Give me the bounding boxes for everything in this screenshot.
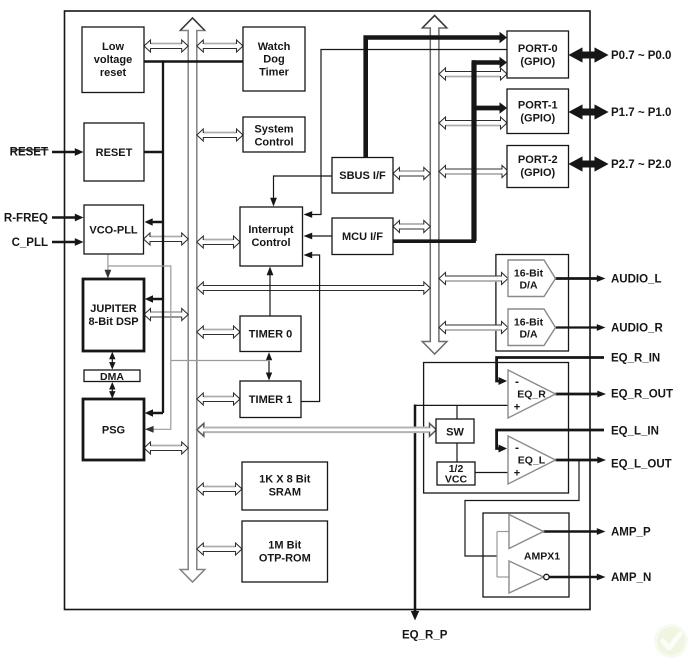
block: Interrupt Control [240, 207, 303, 266]
wire: reset line into PSG [152, 412, 164, 415]
svg-text:SRAM: SRAM [269, 486, 301, 498]
svg-text:SW: SW [446, 426, 464, 438]
bus arrow: peripheral bus - PORT-1 (gray) [439, 117, 507, 129]
bus arrow: bus - System Control [197, 129, 243, 141]
block: MCU I/F [332, 218, 393, 255]
svg-text:Timer: Timer [259, 66, 289, 78]
wire: AMP_N output [549, 576, 598, 579]
block: JUPITER 8-Bit DSP [83, 279, 144, 351]
block: VCO-PLL [84, 205, 144, 254]
wire: clock branch to timers (gray) [171, 360, 270, 362]
wire: EQ_L output to EQ_L_OUT [556, 459, 599, 462]
svg-text:Watch: Watch [258, 41, 291, 53]
wire: EQ_L output down to AMPX1 feed [465, 460, 579, 556]
svg-text:voltage: voltage [94, 54, 133, 66]
svg-text:PSG: PSG [102, 424, 125, 436]
wire: JUPITER DSP - DMA link [111, 356, 113, 365]
bus arrow: bus - TIMER 1 [197, 393, 240, 405]
svg-text:OTP-ROM: OTP-ROM [259, 552, 311, 564]
wire: EQ_L_IN input (thick) [497, 430, 604, 449]
block: PORT-1 (GPIO) [507, 89, 569, 134]
block: TIMER 1 [240, 381, 301, 418]
bus arrow: system bus - peripheral bus (long) [197, 282, 430, 294]
svg-text:8-Bit DSP: 8-Bit DSP [88, 316, 138, 328]
op-amp EQ_L [508, 436, 556, 484]
svg-text:EQ_L_IN: EQ_L_IN [611, 426, 659, 438]
bus arrow: peripheral bus - PORT-2 (gray) [439, 166, 509, 178]
bus arrow: PSG - bus [144, 442, 188, 454]
input wire C_PLL [52, 241, 77, 244]
wire: TIMER 0 to Interrupt Control bottom [269, 274, 271, 317]
block: Low voltage reset [82, 27, 144, 93]
wire: AUDIO_L output [555, 277, 598, 280]
svg-text:(GPIO): (GPIO) [520, 56, 555, 68]
block: TIMER 0 [240, 316, 301, 352]
bus arrow: bus - Interrupt Control [197, 236, 240, 248]
svg-text:AUDIO_L: AUDIO_L [611, 274, 661, 286]
wire: SBUS I/F to Interrupt Control top [274, 176, 333, 200]
wire: TIMER 1 to Interrupt Control [301, 255, 320, 402]
bus arrow: JUPITER DSP - bus [144, 309, 188, 321]
svg-text:-: - [515, 441, 519, 455]
svg-text:P1.7 ~ P1.0: P1.7 ~ P1.0 [611, 107, 671, 119]
svg-text:R-FREQ: R-FREQ [4, 212, 48, 224]
svg-text:+: + [514, 467, 520, 479]
svg-text:1M Bit: 1M Bit [268, 539, 301, 551]
bus arrow: bus - OTP-ROM [197, 543, 242, 555]
wire: TIMER 0 - TIMER 1 link [268, 357, 270, 375]
block: 1M Bit OTP-ROM [242, 521, 328, 582]
wire: MCU I/F to Interrupt Control [311, 235, 332, 237]
wire: Low-voltage-reset to Watch Dog Timer (thick) [144, 60, 243, 62]
svg-text:EQ_L: EQ_L [518, 454, 546, 466]
wire: reset distribution vertical [162, 60, 164, 413]
wire: PORT-0 thin feedback line to Interrupt Control [311, 50, 507, 215]
svg-text:16-Bit: 16-Bit [514, 316, 544, 328]
bus arrow: bus - Watch Dog Timer [197, 40, 243, 52]
svg-text:TIMER 0: TIMER 0 [249, 328, 292, 340]
svg-text:EQ_R_P: EQ_R_P [402, 630, 448, 642]
port arrow: P2.7 ~ P2.0 [570, 157, 608, 171]
svg-text:EQ_R_IN: EQ_R_IN [611, 353, 660, 365]
block: 16-Bit D/A left channel (pentagon) [508, 260, 556, 297]
wire: AUDIO_R output [555, 326, 598, 328]
block: PSG [83, 399, 144, 460]
svg-text:RESET: RESET [10, 147, 48, 159]
bus arrow: SBUS I/F - peripheral bus [393, 168, 430, 180]
svg-text:Dog: Dog [263, 53, 284, 65]
port arrow: P1.7 ~ P1.0 [570, 105, 608, 119]
block: D/A converters enclosure [496, 255, 569, 352]
buffer amp (AMPX1 inverting) [509, 561, 544, 593]
outer chip boundary frame [65, 11, 591, 610]
wire: RESET box to reset line [144, 151, 164, 154]
bus arrow: VCO-PLL - bus [144, 233, 189, 245]
wire: reset line into JUPITER DSP [152, 298, 164, 301]
wire: DMA - PSG link [111, 386, 113, 394]
wire: SW to plus node [456, 405, 458, 419]
block: PORT-0 (GPIO) [507, 31, 569, 78]
svg-text:reset: reset [100, 67, 127, 79]
block: AMPX1 enclosure [483, 513, 569, 597]
bus arrow: bus - TIMER 0 [197, 326, 240, 338]
svg-text:MCU I/F: MCU I/F [342, 231, 383, 243]
svg-text:(GPIO): (GPIO) [520, 112, 555, 124]
svg-text:16-Bit: 16-Bit [514, 267, 544, 279]
input wire RESET [52, 151, 77, 154]
wire: SW to 1/2 VCC [456, 443, 458, 462]
svg-text:AMP_P: AMP_P [611, 527, 651, 539]
block: SBUS I/F [332, 158, 393, 194]
svg-text:EQ_R: EQ_R [517, 388, 546, 400]
wire: MCU I/F up to PORT-0 and PORT-1 (thick) [392, 60, 474, 241]
svg-text:Low: Low [102, 41, 124, 53]
watermark check badge [654, 624, 688, 658]
block: DMA [84, 370, 140, 382]
bus arrow: bus - SRAM [197, 483, 242, 495]
block: 1K X 8 Bit SRAM [242, 462, 328, 510]
svg-text:RESET: RESET [96, 147, 133, 159]
wire: EQ_R output to EQ_R_OUT [556, 393, 599, 396]
svg-text:EQ_R_OUT: EQ_R_OUT [611, 389, 673, 401]
wire: clock branch to PSG (gray) [108, 266, 171, 429]
wire: SBUS I/F up and over to PORT-0 (thick) [366, 38, 500, 158]
wire: reset line into VCO-PLL [152, 221, 164, 224]
svg-text:D/A: D/A [519, 328, 538, 340]
op-amp EQ_R [508, 370, 556, 418]
buffer amp (AMPX1 non-inverting) [509, 515, 544, 549]
wire: EQ_R plus input node [415, 404, 508, 406]
svg-text:TIMER 1: TIMER 1 [249, 394, 292, 406]
bus arrow: peripheral bus - PORT-0 (gray) [439, 68, 507, 80]
svg-text:SBUS I/F: SBUS I/F [339, 170, 386, 182]
wire: VCO-PLL clock to JUPITER DSP (gray) [107, 254, 109, 272]
svg-text:1K X 8 Bit: 1K X 8 Bit [259, 473, 311, 485]
block: EQ section enclosure [424, 363, 569, 494]
svg-text:PORT-2: PORT-2 [518, 154, 558, 166]
block: 1/2 VCC [437, 462, 475, 485]
bus arrow: system bus - SW (long gray) [197, 423, 437, 436]
wire: 1/2 VCC to EQ_L plus input [475, 472, 508, 474]
svg-text:(GPIO): (GPIO) [520, 167, 555, 179]
bus arrow: MCU I/F - peripheral bus [393, 221, 430, 233]
wire: EQ_R_IN input (thick) [497, 358, 604, 382]
svg-text:System: System [254, 123, 293, 135]
svg-text:AMP_N: AMP_N [611, 572, 651, 584]
block: System Control [243, 117, 305, 152]
svg-text:Interrupt: Interrupt [248, 224, 294, 236]
svg-text:+: + [514, 401, 520, 413]
wire: AMPX1 input bar (gray) [496, 532, 498, 578]
svg-text:-: - [515, 375, 519, 389]
svg-text:PORT-0: PORT-0 [518, 43, 558, 55]
bus arrow: peripheral bus - 16-bit D/A left (gray) [439, 273, 508, 285]
block: 16-Bit D/A right channel (pentagon) [508, 309, 556, 346]
svg-text:VCO-PLL: VCO-PLL [89, 224, 138, 236]
bus arrow: Low voltage reset - bus [144, 40, 188, 52]
svg-text:Control: Control [254, 136, 293, 148]
port arrow: P0.7 ~ P0.0 [570, 48, 608, 62]
wire: EQ_R_P tap (thick vertical) [414, 405, 417, 613]
svg-text:Control: Control [251, 237, 290, 249]
svg-text:DMA: DMA [100, 371, 124, 383]
svg-text:JUPITER: JUPITER [90, 303, 137, 315]
block: SW [436, 419, 474, 443]
bus arrow: peripheral bus - 16-bit D/A right (gray) [439, 322, 508, 334]
svg-text:D/A: D/A [519, 279, 538, 291]
block: RESET [84, 123, 144, 181]
wire: AMP_P output [544, 530, 599, 533]
svg-text:P2.7 ~ P2.0: P2.7 ~ P2.0 [611, 159, 671, 171]
svg-text:P0.7 ~ P0.0: P0.7 ~ P0.0 [611, 50, 671, 62]
input wire R-FREQ [52, 216, 77, 219]
svg-text:EQ_L_OUT: EQ_L_OUT [611, 459, 672, 471]
peripheral bus (right vertical bus arrow) [422, 16, 447, 355]
block: PORT-2 (GPIO) [507, 146, 569, 188]
svg-text:AUDIO_R: AUDIO_R [611, 323, 663, 335]
svg-text:VCC: VCC [445, 473, 468, 485]
svg-text:AMPX1: AMPX1 [524, 550, 560, 562]
system bus (left vertical bus arrow) [180, 18, 205, 582]
block: Watch Dog Timer [243, 27, 305, 91]
svg-text:PORT-1: PORT-1 [518, 99, 558, 111]
svg-text:C_PLL: C_PLL [12, 237, 48, 249]
